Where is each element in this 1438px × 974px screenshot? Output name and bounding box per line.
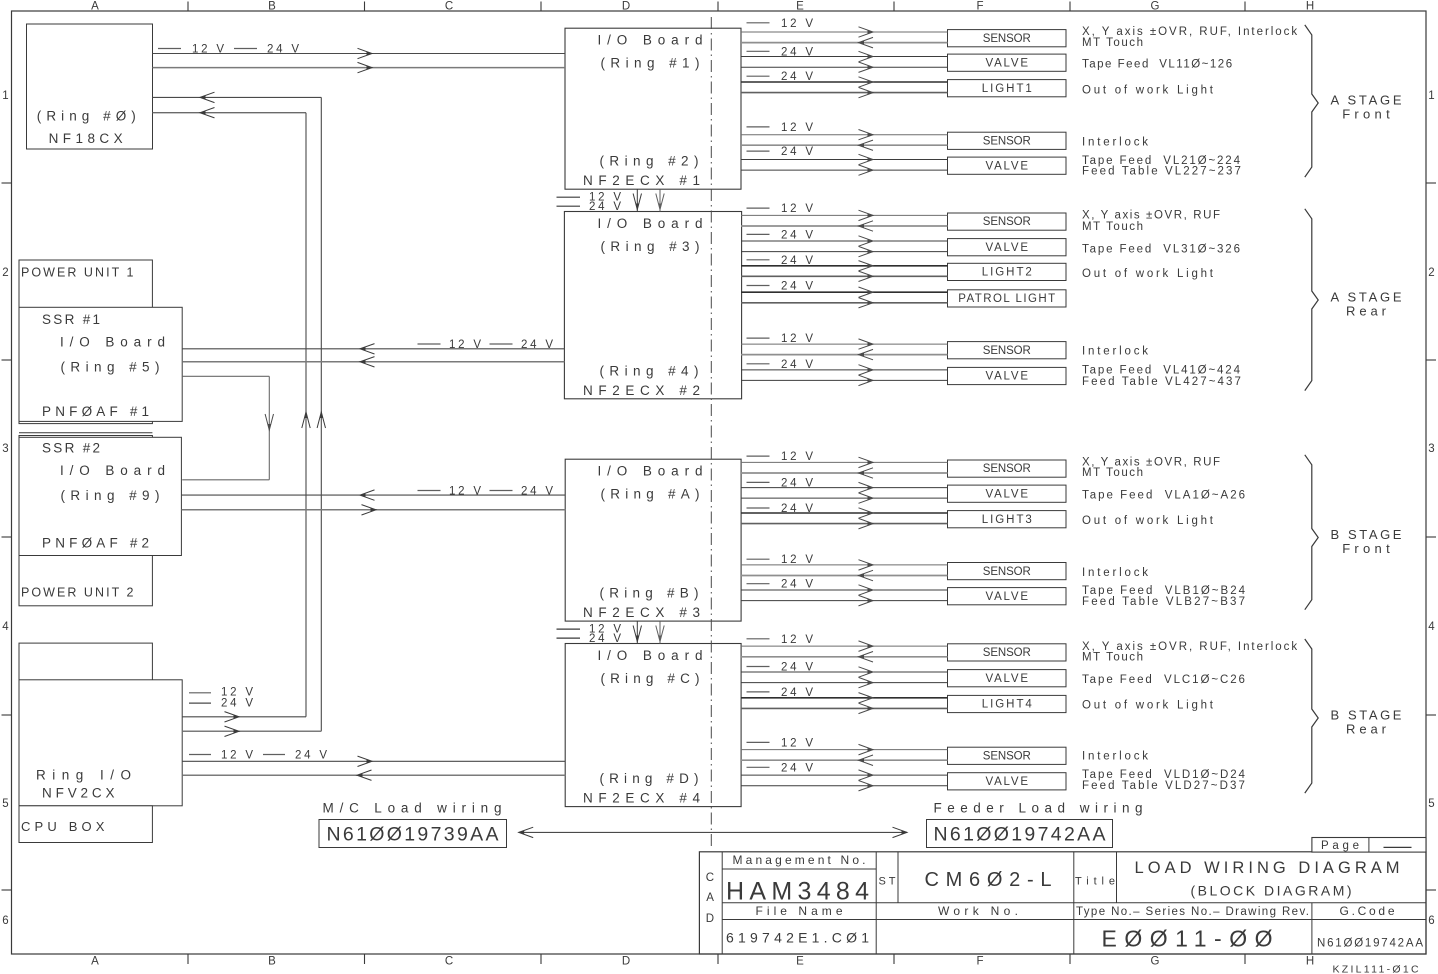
svg-text:C: C <box>445 1 453 13</box>
svg-text:NF2ECX #4: NF2ECX #4 <box>583 791 706 806</box>
brace A STAGE Front <box>1305 25 1318 177</box>
voltage labels 12V 24V top <box>158 48 181 50</box>
wire to sensor (12V) <box>741 461 948 463</box>
svg-text:H: H <box>1306 1 1314 13</box>
svg-text:12 V: 12 V <box>449 486 484 498</box>
wire to valve (24V) <box>741 774 948 776</box>
svg-text:A: A <box>706 892 714 904</box>
svg-text:VALVE: VALVE <box>986 371 1030 383</box>
svg-text:LIGHT3: LIGHT3 <box>982 514 1034 526</box>
wire drop 2 <box>659 621 661 643</box>
svg-text:12 V: 12 V <box>449 339 484 351</box>
device box VALVE <box>948 367 1067 384</box>
wire to valve (24V) <box>741 159 948 161</box>
svg-text:24 V: 24 V <box>267 44 302 56</box>
wire to light 2 <box>741 275 948 277</box>
svg-text:D: D <box>622 1 630 13</box>
wire from sensor <box>741 575 948 577</box>
svg-text:H: H <box>1306 956 1314 968</box>
device box VALVE <box>948 54 1067 71</box>
svg-text:A STAGE: A STAGE <box>1331 290 1405 305</box>
svg-text:(Ring #2): (Ring #2) <box>600 154 704 169</box>
svg-text:Title: Title <box>1075 876 1120 888</box>
svg-text:24 V: 24 V <box>781 281 816 293</box>
voltage label 24 V <box>747 285 770 287</box>
svg-text:12 V: 12 V <box>781 203 816 215</box>
brace B STAGE Rear <box>1305 639 1318 793</box>
wire ring I/O to I/O#4 (out) <box>182 760 565 762</box>
svg-text:24 V: 24 V <box>781 579 816 591</box>
voltage label 24 V <box>747 259 770 261</box>
svg-text:SSR #2: SSR #2 <box>42 441 102 456</box>
svg-text:12 V: 12 V <box>781 333 816 345</box>
svg-text:(Ring #D): (Ring #D) <box>600 771 704 786</box>
svg-text:(Ring #9): (Ring #9) <box>61 488 165 503</box>
device box SENSOR <box>948 30 1067 47</box>
svg-text:24 V: 24 V <box>781 229 816 241</box>
svg-text:(Ring #A): (Ring #A) <box>601 487 705 502</box>
svg-text:24 V: 24 V <box>781 359 816 371</box>
block ring #0 NF18CX <box>27 24 153 149</box>
wire to valve 2 <box>741 169 948 171</box>
wire to valve 2 <box>741 682 948 684</box>
svg-text:I/O Board: I/O Board <box>60 463 171 478</box>
device box VALVE <box>948 239 1067 256</box>
voltage label 12 V <box>747 455 770 457</box>
block I/O board NF2ECX #2 <box>564 212 741 399</box>
brace A STAGE Rear <box>1305 209 1318 391</box>
svg-text:ST: ST <box>879 876 899 888</box>
svg-text:Out of work Light: Out of work Light <box>1082 84 1216 96</box>
blank block above ring I/O <box>19 643 152 683</box>
wire I/O#4 to ring I/O (in) <box>182 774 565 776</box>
svg-text:I/O Board: I/O Board <box>598 648 709 663</box>
svg-text:M/C Load wiring: M/C Load wiring <box>323 801 508 816</box>
svg-text:CM6Ø2-L: CM6Ø2-L <box>925 869 1059 891</box>
wire to light (24V) <box>741 697 948 699</box>
svg-text:12 V: 12 V <box>781 737 816 749</box>
svg-text:VALVE: VALVE <box>986 242 1030 254</box>
svg-text:A STAGE: A STAGE <box>1331 93 1405 108</box>
voltage labels 12V 24V ring I/O lower <box>189 754 211 756</box>
wire to valve 2 <box>741 379 948 381</box>
svg-text:619742E1.CØ1: 619742E1.CØ1 <box>726 930 873 946</box>
svg-text:6: 6 <box>1428 915 1434 927</box>
voltage label 12 V <box>747 741 770 743</box>
svg-text:LIGHT1: LIGHT1 <box>982 83 1034 95</box>
svg-text:VALVE: VALVE <box>986 591 1030 603</box>
voltage label 12 V <box>747 558 770 560</box>
svg-text:(Ring #C): (Ring #C) <box>601 671 705 686</box>
svg-text:A: A <box>91 1 99 13</box>
svg-text:LIGHT2: LIGHT2 <box>982 267 1034 279</box>
svg-text:1: 1 <box>1428 90 1434 102</box>
wire to valve (24V) <box>741 487 948 489</box>
svg-text:(Ring #3): (Ring #3) <box>601 239 705 254</box>
device box LIGHT4 <box>948 695 1067 712</box>
voltage label 12 V <box>747 337 770 339</box>
part number box N610019739AA <box>319 820 507 848</box>
svg-text:NF18CX: NF18CX <box>49 131 127 146</box>
svg-text:12 V: 12 V <box>781 18 816 30</box>
block CPU BOX <box>19 806 152 843</box>
svg-text:VALVE: VALVE <box>986 57 1030 69</box>
svg-text:(Ring #Ø): (Ring #Ø) <box>37 109 141 124</box>
svg-text:SENSOR: SENSOR <box>983 463 1031 475</box>
svg-text:24 V: 24 V <box>781 146 816 158</box>
wire to light 2 <box>741 523 948 525</box>
svg-text:Out of work Light: Out of work Light <box>1082 515 1216 527</box>
svg-text:24 V: 24 V <box>521 486 556 498</box>
svg-text:Ring I/O: Ring I/O <box>36 768 138 783</box>
voltage label 24 V <box>747 666 770 668</box>
svg-text:12 V: 12 V <box>221 750 256 762</box>
svg-text:3: 3 <box>1428 443 1434 455</box>
svg-text:2: 2 <box>2 267 8 279</box>
voltage label 12 V <box>747 126 770 128</box>
device box VALVE <box>948 773 1067 790</box>
wire 12V I/O#2 to SSR#1 <box>182 348 564 350</box>
12V/24V feed between stacked I/O boards <box>557 628 581 630</box>
svg-text:NF2ECX #3: NF2ECX #3 <box>583 605 706 620</box>
svg-text:VALVE: VALVE <box>986 160 1030 172</box>
wire to valve (24V) <box>741 589 948 591</box>
svg-text:Feed Table VLD27~D37: Feed Table VLD27~D37 <box>1082 780 1247 792</box>
svg-text:2: 2 <box>1428 267 1434 279</box>
wire 24V SSR#2 to I/O#3 <box>181 509 565 511</box>
vertical riser left (to ring#0 lower wire) <box>305 113 307 717</box>
svg-text:POWER UNIT 1: POWER UNIT 1 <box>21 266 136 280</box>
svg-text:PNFØAF #1: PNFØAF #1 <box>42 404 153 419</box>
wire drop 2 <box>659 189 661 211</box>
double arrow between load wiring boxes <box>519 831 907 833</box>
wire to sensor (12V) <box>741 31 948 33</box>
wire 24V ring#0 to I/O board #1 <box>153 67 566 69</box>
wire from sensor <box>741 144 948 146</box>
12V/24V feed between stacked I/O boards <box>557 196 581 198</box>
svg-text:Feed Table VL427~437: Feed Table VL427~437 <box>1082 376 1243 388</box>
svg-text:Type No.– Series No.– Drawing: Type No.– Series No.– Drawing Rev. <box>1076 906 1310 918</box>
wire to sensor (12V) <box>741 749 948 751</box>
svg-text:G.Code: G.Code <box>1340 904 1398 918</box>
voltage label 24 V <box>747 766 770 768</box>
svg-text:6: 6 <box>2 915 8 927</box>
wire to sensor (12V) <box>741 214 948 216</box>
voltage label 12 V <box>747 22 770 24</box>
voltage label 24 V <box>747 233 770 235</box>
svg-text:LOAD WIRING DIAGRAM: LOAD WIRING DIAGRAM <box>1135 859 1404 877</box>
svg-text:Tape Feed VLA1Ø~A26: Tape Feed VLA1Ø~A26 <box>1082 490 1247 502</box>
wire 12V ring#0 to I/O board #1 <box>153 53 566 55</box>
svg-text:POWER UNIT 2: POWER UNIT 2 <box>21 586 136 600</box>
wire drop 1 <box>636 189 638 211</box>
svg-text:Rear: Rear <box>1346 721 1390 736</box>
svg-text:1: 1 <box>2 90 8 102</box>
svg-text:24 V: 24 V <box>781 762 816 774</box>
svg-text:LIGHT4: LIGHT4 <box>982 699 1034 711</box>
svg-text:I/O Board: I/O Board <box>598 216 709 231</box>
device box SENSOR <box>948 747 1067 764</box>
device box LIGHT3 <box>948 511 1067 528</box>
svg-text:NFV2CX: NFV2CX <box>42 786 118 801</box>
block I/O board NF2ECX #3 <box>565 459 741 621</box>
svg-text:24 V: 24 V <box>295 750 330 762</box>
svg-text:(Ring #5): (Ring #5) <box>61 360 165 375</box>
device box VALVE <box>948 588 1067 605</box>
svg-text:I/O Board: I/O Board <box>60 335 171 350</box>
wire to valve (24V) <box>741 671 948 673</box>
wire ring I/O to riser 1 <box>182 716 306 718</box>
title block page box <box>1312 838 1426 853</box>
svg-text:4: 4 <box>1428 621 1435 633</box>
svg-text:A: A <box>91 956 99 968</box>
wire to sensor (12V) <box>741 134 948 136</box>
wire to sensor (12V) <box>741 564 948 566</box>
wire to valve 2 <box>741 497 948 499</box>
svg-text:N61ØØ19739AA: N61ØØ19739AA <box>327 824 501 846</box>
svg-text:PATROL LIGHT: PATROL LIGHT <box>958 293 1056 305</box>
device box VALVE <box>948 670 1067 687</box>
vertical riser right (to ring#0 upper wire) <box>320 97 322 731</box>
svg-text:SENSOR: SENSOR <box>983 33 1031 45</box>
svg-text:4: 4 <box>2 621 9 633</box>
voltage labels 12V 24V at SSR#2 <box>418 490 441 492</box>
voltage label 24 V <box>747 583 770 585</box>
svg-text:G: G <box>1151 956 1160 968</box>
voltage label 24 V <box>747 691 770 693</box>
svg-text:Out of work Light: Out of work Light <box>1082 268 1216 280</box>
svg-text:I/O Board: I/O Board <box>598 33 709 48</box>
svg-text:MT Touch: MT Touch <box>1082 467 1145 479</box>
svg-text:3: 3 <box>2 443 8 455</box>
svg-text:B STAGE: B STAGE <box>1331 527 1405 542</box>
wire to valve (24V) <box>741 56 948 58</box>
voltage label 24 V <box>747 75 770 77</box>
svg-text:NF2ECX #1: NF2ECX #1 <box>583 173 706 188</box>
svg-text:(Ring #1): (Ring #1) <box>601 56 705 71</box>
svg-text:E: E <box>796 956 804 968</box>
svg-text:24 V: 24 V <box>221 697 256 709</box>
wire to light 2 <box>741 707 948 709</box>
svg-text:G: G <box>1151 1 1160 13</box>
svg-text:E: E <box>796 1 804 13</box>
wire from sensor <box>741 42 948 44</box>
svg-text:12 V: 12 V <box>781 122 816 134</box>
device box SENSOR <box>948 132 1067 149</box>
device box LIGHT2 <box>948 263 1067 280</box>
svg-text:SENSOR: SENSOR <box>983 647 1031 659</box>
wire to sensor (12V) <box>741 343 948 345</box>
voltage label 24 V <box>747 481 770 483</box>
voltage label 24 V <box>747 50 770 52</box>
svg-text:I/O Board: I/O Board <box>598 464 709 479</box>
svg-text:Work No.: Work No. <box>938 904 1022 918</box>
svg-text:24 V: 24 V <box>589 201 624 213</box>
wire to valve 2 <box>741 785 948 787</box>
svg-text:KZIL111-Ø1C: KZIL111-Ø1C <box>1333 964 1421 974</box>
svg-text:D: D <box>622 956 630 968</box>
svg-text:Feed Table VL227~237: Feed Table VL227~237 <box>1082 165 1243 177</box>
wire from sensor <box>741 472 948 474</box>
svg-text:F: F <box>976 956 983 968</box>
wire 12V I/O#3 to SSR#2 <box>181 494 565 496</box>
svg-text:C: C <box>706 872 714 884</box>
svg-text:C: C <box>445 956 453 968</box>
device box SENSOR <box>948 563 1067 580</box>
svg-text:PNFØAF #2: PNFØAF #2 <box>42 536 153 551</box>
svg-text:SENSOR: SENSOR <box>983 216 1031 228</box>
wire to light (24V) <box>741 512 948 514</box>
svg-text:CPU BOX: CPU BOX <box>21 819 109 834</box>
svg-text:EØØ11-ØØ: EØØ11-ØØ <box>1102 926 1281 952</box>
svg-text:12 V: 12 V <box>192 44 227 56</box>
svg-text:Out of work Light: Out of work Light <box>1082 700 1216 712</box>
svg-text:MT Touch: MT Touch <box>1082 652 1145 664</box>
wire from sensor <box>741 656 948 658</box>
loop wire SSR#1 to SSR#2 <box>182 375 269 377</box>
svg-text:VALVE: VALVE <box>986 776 1030 788</box>
wire to light 2 <box>741 302 948 304</box>
voltage label 24 V <box>747 150 770 152</box>
return wire to ring#0 (lower) <box>153 112 307 114</box>
device box SENSOR <box>948 342 1067 359</box>
wire to valve 2 <box>741 600 948 602</box>
title block outline <box>699 852 1426 954</box>
svg-text:SENSOR: SENSOR <box>983 566 1031 578</box>
svg-text:D: D <box>706 913 714 925</box>
svg-text:Tape Feed VL11Ø~126: Tape Feed VL11Ø~126 <box>1082 59 1234 71</box>
svg-text:Interlock: Interlock <box>1082 750 1151 762</box>
separator line below SSR #1 <box>19 432 152 434</box>
device box VALVE <box>948 485 1067 502</box>
svg-text:Page: Page <box>1321 840 1363 852</box>
svg-text:5: 5 <box>2 798 8 810</box>
svg-text:Interlock: Interlock <box>1082 137 1151 149</box>
svg-text:(Ring #B): (Ring #B) <box>600 586 704 601</box>
wire to valve (24V) <box>741 369 948 371</box>
svg-text:(Ring #4): (Ring #4) <box>600 363 704 378</box>
svg-text:5: 5 <box>1428 798 1434 810</box>
svg-text:SENSOR: SENSOR <box>983 135 1031 147</box>
wire 24V I/O#2 to SSR#1 <box>182 361 564 363</box>
device box SENSOR <box>948 460 1067 477</box>
block ring I/O NFV2CX <box>19 680 182 806</box>
wire from sensor <box>741 759 948 761</box>
svg-text:Interlock: Interlock <box>1082 567 1151 579</box>
device box SENSOR <box>948 213 1067 230</box>
wire to valve (24V) <box>741 240 948 242</box>
device box LIGHT1 <box>948 80 1067 97</box>
voltage label 12 V <box>747 638 770 640</box>
svg-text:NF2ECX #2: NF2ECX #2 <box>583 383 706 398</box>
svg-text:N61ØØ19742AA: N61ØØ19742AA <box>934 824 1108 846</box>
svg-text:N61ØØ19742AA: N61ØØ19742AA <box>1317 938 1425 950</box>
svg-text:B: B <box>268 1 276 13</box>
device box PATROL LIGHT <box>948 290 1067 307</box>
wire drop 1 <box>636 621 638 643</box>
device box VALVE <box>948 157 1067 174</box>
device box SENSOR <box>948 644 1067 661</box>
svg-text:12 V: 12 V <box>781 634 816 646</box>
wire to sensor (12V) <box>741 645 948 647</box>
svg-text:Management No.: Management No. <box>733 853 869 867</box>
feeder/machine boundary dash-dot line <box>710 17 712 846</box>
ring I/O 12V label pair <box>189 692 211 694</box>
voltage labels 12V 24V at SSR#1 <box>418 343 441 345</box>
svg-text:SENSOR: SENSOR <box>983 751 1031 763</box>
svg-text:SENSOR: SENSOR <box>983 345 1031 357</box>
title block internal lines <box>721 852 723 954</box>
svg-text:Front: Front <box>1342 106 1394 121</box>
voltage label 24 V <box>747 363 770 365</box>
svg-text:VALVE: VALVE <box>986 488 1030 500</box>
block I/O board NF2ECX #4 <box>565 644 741 807</box>
block power unit 2 <box>19 436 152 606</box>
svg-text:24 V: 24 V <box>589 633 624 645</box>
svg-text:Feeder Load wiring: Feeder Load wiring <box>934 801 1149 816</box>
svg-text:(BLOCK DIAGRAM): (BLOCK DIAGRAM) <box>1191 883 1355 899</box>
wire to valve 2 <box>741 66 948 68</box>
svg-text:B: B <box>268 956 276 968</box>
wire to valve 2 <box>741 251 948 253</box>
svg-text:F: F <box>976 1 983 13</box>
svg-text:Tape Feed VL31Ø~326: Tape Feed VL31Ø~326 <box>1082 243 1242 255</box>
svg-text:24 V: 24 V <box>521 339 556 351</box>
wire to light (24V) <box>741 265 948 267</box>
wire from sensor <box>741 354 948 356</box>
brace B STAGE Front <box>1305 455 1318 610</box>
wire to light (24V) <box>741 291 948 293</box>
svg-text:MT Touch: MT Touch <box>1082 37 1145 49</box>
svg-text:Feed Table VLB27~B37: Feed Table VLB27~B37 <box>1082 596 1247 608</box>
svg-text:VALVE: VALVE <box>986 673 1030 685</box>
wire to light 2 <box>741 92 948 94</box>
voltage label 24 V <box>747 507 770 509</box>
svg-text:Rear: Rear <box>1346 303 1390 318</box>
return wire to ring#0 (upper) <box>153 96 322 98</box>
block power unit 1 <box>19 260 152 424</box>
svg-text:MT Touch: MT Touch <box>1082 221 1145 233</box>
wire ring I/O to riser 2 <box>182 730 321 732</box>
svg-text:B STAGE: B STAGE <box>1331 708 1405 723</box>
svg-text:HAM3484: HAM3484 <box>726 878 874 906</box>
voltage label 12 V <box>747 207 770 209</box>
block I/O board NF2ECX #1 <box>565 28 741 189</box>
wire from sensor <box>741 225 948 227</box>
svg-text:File Name: File Name <box>756 904 847 918</box>
svg-text:12 V: 12 V <box>781 451 816 463</box>
svg-text:Tape Feed VLC1Ø~C26: Tape Feed VLC1Ø~C26 <box>1082 674 1247 686</box>
svg-text:Interlock: Interlock <box>1082 345 1151 357</box>
wire to light (24V) <box>741 81 948 83</box>
svg-text:Front: Front <box>1342 541 1394 556</box>
block SSR #2 / IO board Ring #9 / PNF0AF #2 <box>19 437 181 555</box>
svg-text:SSR #1: SSR #1 <box>42 312 102 327</box>
part number box N610019742AA <box>927 820 1113 848</box>
block SSR #1 / IO board Ring #5 / PNF0AF #1 <box>19 307 182 421</box>
